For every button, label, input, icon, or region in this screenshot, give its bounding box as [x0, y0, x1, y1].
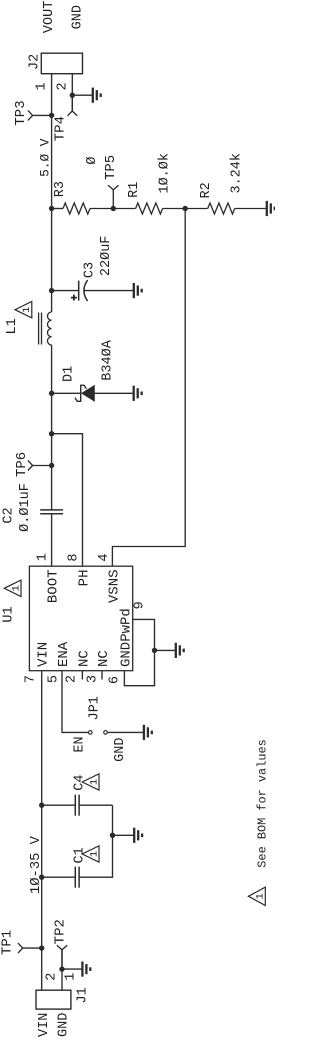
- wire PH node to U1 PH pin8: [52, 434, 83, 567]
- svg-text:7: 7: [24, 675, 39, 683]
- wire D1 anode to ground: [95, 392, 134, 394]
- svg-text:R1: R1: [127, 182, 142, 198]
- svg-text:1: 1: [88, 851, 100, 857]
- U1 BOM note triangle 1: [4, 580, 22, 596]
- inductor L1: [39, 312, 52, 345]
- svg-text:1: 1: [255, 893, 267, 899]
- svg-text:5.Ø V: 5.Ø V: [38, 138, 53, 177]
- wire to ground: [62, 968, 82, 970]
- junction PH branch: [49, 431, 54, 436]
- svg-text:1Ø.Øk: 1Ø.Øk: [158, 153, 173, 194]
- wire J2 pin2 to TP4: [71, 74, 73, 111]
- svg-text:D1: D1: [61, 366, 76, 382]
- svg-text:TP2: TP2: [53, 919, 69, 944]
- svg-text:22ØuF: 22ØuF: [99, 236, 114, 277]
- svg-text:1: 1: [10, 585, 22, 591]
- svg-text:BOOT: BOOT: [46, 570, 62, 604]
- svg-text:B34ØA: B34ØA: [101, 339, 116, 380]
- connector J2: [41, 53, 82, 74]
- svg-text:Ø: Ø: [85, 157, 100, 165]
- test point TP3: [28, 110, 52, 120]
- resistor R2: [208, 203, 235, 214]
- wire C2 to PH node and L1: [51, 345, 53, 510]
- ground at JP1: [144, 725, 152, 740]
- wire R3 to R1: [90, 208, 136, 210]
- svg-text:3: 3: [85, 675, 100, 683]
- junction C4 on VIN rail: [39, 803, 44, 808]
- wire R2 to ground: [235, 208, 267, 210]
- svg-text:TP4: TP4: [53, 116, 69, 141]
- wire to ground: [155, 649, 176, 651]
- capacitor C3 polarized: [79, 280, 88, 301]
- svg-text:Ø.Ø1uF: Ø.Ø1uF: [18, 483, 33, 532]
- wire U1 GND pin6 to PowerPad pin9: [124, 619, 154, 685]
- wire JP1 to ground: [107, 731, 144, 733]
- svg-text:1: 1: [21, 307, 33, 313]
- wire C1 bottom to common: [79, 805, 112, 877]
- svg-text:R3: R3: [53, 181, 68, 197]
- ground at divider: [267, 201, 275, 216]
- svg-text:1Ø-35 V: 1Ø-35 V: [28, 835, 44, 894]
- ground at J1: [82, 962, 90, 977]
- svg-text:TP3: TP3: [13, 100, 29, 125]
- test point TP2: [57, 945, 67, 968]
- svg-text:1: 1: [36, 553, 51, 561]
- svg-text:GNDPwPd: GNDPwPd: [118, 608, 134, 667]
- IC U1 TPS5430 body: [29, 566, 132, 671]
- resistor R3: [63, 203, 90, 214]
- wire VOUT rail L1 to J2 pin1: [51, 74, 53, 312]
- test point TP5: [108, 185, 118, 208]
- svg-text:2: 2: [64, 675, 79, 683]
- svg-text:1: 1: [88, 779, 100, 785]
- svg-text:ENA: ENA: [56, 641, 72, 667]
- jumper JP1: [89, 731, 108, 735]
- wire VIN rail to C1: [42, 876, 76, 878]
- junction ground tap on J2 GND wire: [70, 93, 75, 98]
- svg-text:VOUT: VOUT: [42, 1, 57, 33]
- svg-text:8: 8: [66, 553, 81, 561]
- wire U1 VSNS pin4 to divider: [112, 209, 185, 567]
- junction divider on VOUT rail: [49, 206, 54, 211]
- svg-text:PH: PH: [77, 570, 93, 587]
- capacitor C2: [40, 510, 63, 514]
- svg-text:TP1: TP1: [0, 930, 16, 955]
- wire U1 pin2 NC stub: [81, 671, 83, 680]
- wire U1 pin3 NC stub: [101, 671, 103, 680]
- svg-text:6: 6: [108, 676, 123, 684]
- wire to ground: [72, 94, 93, 96]
- wire VOUT rail to C3: [52, 290, 78, 292]
- wire C3 to ground: [84, 290, 134, 292]
- svg-text:NC: NC: [96, 650, 112, 667]
- svg-text:C4: C4: [72, 774, 87, 790]
- svg-text:J2: J2: [28, 54, 43, 70]
- junction TP1 on VIN rail: [39, 945, 44, 950]
- wire U1 ENA to JP1: [62, 671, 89, 733]
- svg-text:1: 1: [64, 973, 79, 981]
- svg-text:2: 2: [45, 973, 60, 981]
- wire U1 BOOT pin1 to C2: [51, 514, 53, 567]
- wire R1 to R2: [163, 208, 208, 210]
- connector J1: [36, 990, 71, 1009]
- svg-text:EN: EN: [72, 736, 87, 752]
- junction feedback tap: [183, 206, 188, 211]
- svg-text:NC: NC: [76, 650, 92, 667]
- C4 BOM note triangle 1: [82, 774, 100, 790]
- capacitor C4: [75, 795, 79, 816]
- svg-text:TP5: TP5: [103, 155, 119, 180]
- svg-text:5: 5: [46, 675, 61, 683]
- svg-text:R2: R2: [199, 182, 214, 198]
- junction ground tap on J1 GND wire: [59, 966, 64, 971]
- svg-text:J1: J1: [75, 987, 90, 1003]
- svg-text:C2: C2: [1, 507, 16, 523]
- svg-text:JP1: JP1: [87, 696, 102, 720]
- wire VIN rail to C4: [42, 804, 76, 806]
- svg-text:GND: GND: [56, 1013, 71, 1037]
- junction C3 on VOUT rail: [49, 288, 54, 293]
- junction TP5 tap: [111, 206, 116, 211]
- test point TP4: [67, 95, 77, 116]
- svg-text:GND: GND: [70, 5, 85, 29]
- ground at D1: [134, 386, 142, 401]
- wire VIN rail J1 pin2 to U1 VIN: [41, 671, 43, 991]
- junction TP3 on VOUT rail: [49, 113, 54, 118]
- svg-text:2: 2: [56, 82, 71, 90]
- svg-text:9: 9: [133, 601, 148, 609]
- svg-text:VSNS: VSNS: [106, 570, 122, 604]
- svg-text:See BOM for values: See BOM for values: [255, 739, 269, 867]
- junction input cap ground tap: [110, 833, 115, 838]
- junction D1 on PH node: [49, 391, 54, 396]
- junction U1 ground net: [152, 648, 157, 653]
- junction C1 on VIN rail: [39, 875, 44, 880]
- svg-text:L1: L1: [5, 318, 20, 334]
- svg-text:TP6: TP6: [14, 452, 30, 477]
- wire to ground: [113, 834, 135, 836]
- resistor R1: [136, 203, 163, 214]
- ground at C3: [134, 283, 142, 298]
- svg-text:VIN: VIN: [36, 642, 52, 667]
- ground at U1: [176, 643, 184, 658]
- C3 plus polarity mark: [71, 295, 77, 301]
- wire PH node to D1 cathode: [52, 392, 80, 394]
- svg-text:3.24k: 3.24k: [230, 153, 245, 194]
- test point TP6: [28, 461, 52, 471]
- wire C4 bottom to common: [79, 804, 112, 806]
- wire J1 pin1 to TP2: [61, 950, 63, 991]
- capacitor C1: [75, 867, 79, 888]
- svg-text:C3: C3: [82, 262, 97, 278]
- svg-text:VIN: VIN: [37, 1013, 52, 1037]
- svg-text:GND: GND: [113, 738, 128, 762]
- junction TP6 on PH node: [49, 463, 54, 468]
- BOM note triangle 1: [248, 887, 266, 905]
- L1 BOM note triangle 1: [15, 302, 33, 318]
- svg-text:U1: U1: [2, 606, 17, 622]
- svg-text:1: 1: [35, 82, 50, 90]
- test point TP1: [18, 943, 42, 953]
- wire VOUT rail to R3: [52, 208, 63, 210]
- ground at J2: [93, 88, 101, 103]
- diode D1 schottky B340A: [75, 385, 86, 401]
- svg-text:4: 4: [97, 553, 112, 561]
- ground at input caps: [134, 828, 142, 843]
- C1 BOM note triangle 1: [82, 846, 100, 862]
